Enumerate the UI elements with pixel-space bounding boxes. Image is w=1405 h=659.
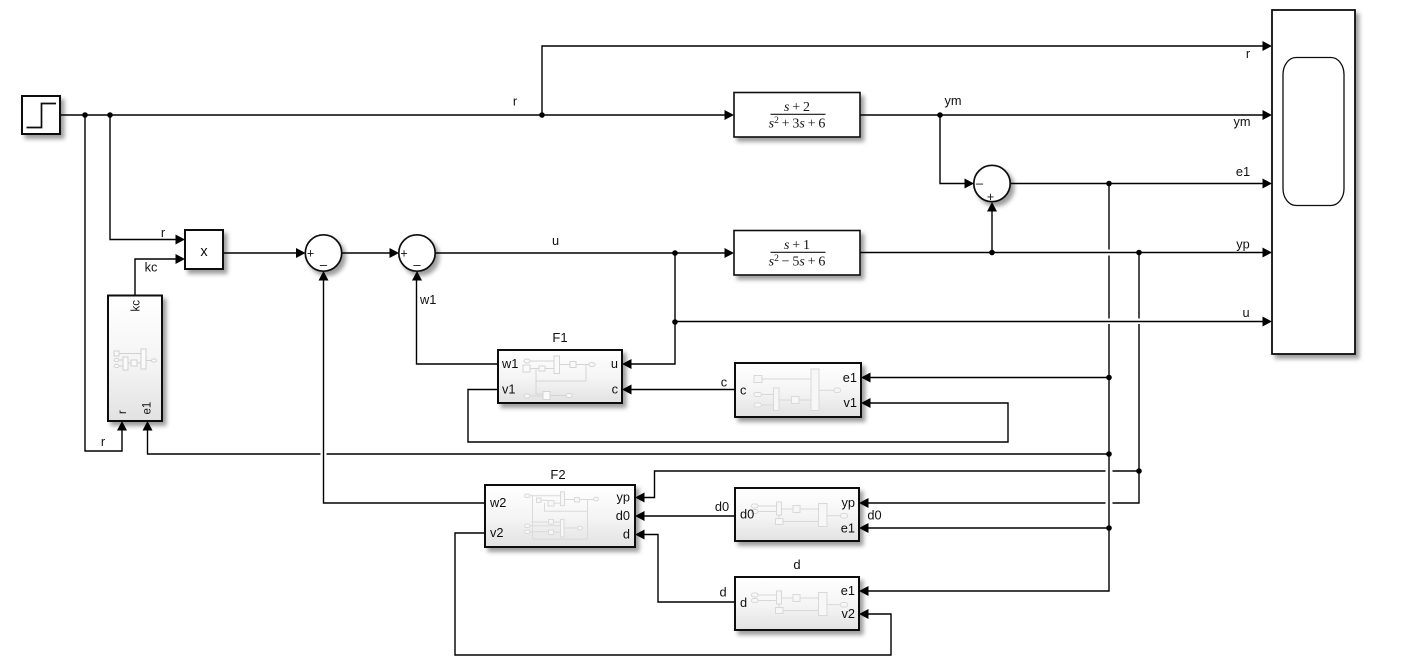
wire ym branch to sum3 <box>940 115 966 184</box>
svg-text:c: c <box>721 375 728 390</box>
wire c (c block out to F1) <box>631 389 736 391</box>
junction r line b <box>107 112 113 118</box>
svg-text:d: d <box>793 557 800 572</box>
wire u to scope <box>675 321 1264 323</box>
wire yp (TF2 out to scope) <box>860 252 1264 254</box>
svg-text:d0: d0 <box>740 507 754 522</box>
arrow F1 input u <box>622 359 632 369</box>
svg-text:e1: e1 <box>841 521 855 536</box>
svg-text:c: c <box>740 383 747 398</box>
svg-text:yp: yp <box>841 495 855 510</box>
svg-text:u: u <box>552 233 559 248</box>
svg-text:d: d <box>740 595 747 610</box>
svg-text:d0: d0 <box>715 499 729 514</box>
wire d0 (d0 out to F2) <box>644 515 735 517</box>
svg-text:–: – <box>413 257 421 272</box>
arrow F2 input d0 <box>635 511 645 521</box>
transfer function G1 (s+2)/(s^2+3s+6) <box>734 93 860 138</box>
junction ym <box>937 112 943 118</box>
svg-text:e1: e1 <box>843 370 857 385</box>
svg-text:+: + <box>400 247 407 261</box>
svg-text:d: d <box>623 527 630 542</box>
svg-text:yp: yp <box>616 490 630 505</box>
svg-text:kc: kc <box>131 300 143 312</box>
wire yp vertical x1139 lower <box>1138 324 1140 471</box>
arrow d0 input e1 <box>859 523 869 533</box>
arrow d0 input yp <box>859 498 869 508</box>
junction r to scope <box>539 112 545 118</box>
svg-text:s + 2: s + 2 <box>784 100 810 115</box>
arrow F2 input d <box>635 530 645 540</box>
svg-text:v2: v2 <box>490 525 504 540</box>
wire yp into sum3 <box>991 211 993 253</box>
svg-text:d0: d0 <box>616 508 630 523</box>
wire d (d out to F2) <box>644 535 735 603</box>
wire e1 vertical x1109 seg2 <box>1108 256 1110 319</box>
svg-text:r: r <box>513 94 518 109</box>
wire e1 vertical x1109 seg1 <box>1108 184 1110 250</box>
wire u branch down <box>674 253 676 322</box>
junction u line <box>672 250 678 256</box>
arrow scope ym <box>1263 110 1273 120</box>
svg-text:F2: F2 <box>550 467 565 482</box>
arrow d input v2 <box>859 609 869 619</box>
wire r main (step output to TF1) <box>60 114 726 116</box>
wire yp to d0 <box>1113 471 1140 503</box>
svg-text:+: + <box>307 247 314 261</box>
junction yp feedback <box>1136 468 1142 474</box>
arrow d input e1 <box>859 586 869 596</box>
wire r to kc estimator <box>85 115 122 451</box>
arrow sum2 up input w1 <box>412 271 422 281</box>
wire u (sum2 out to TF2) <box>435 252 726 254</box>
arrow sum1 input <box>296 248 306 258</box>
wire r to product <box>110 115 177 240</box>
arrow product input r <box>176 235 186 245</box>
wire kc <box>135 259 177 296</box>
svg-text:kc: kc <box>145 260 158 275</box>
svg-text:e1: e1 <box>1236 164 1250 179</box>
arrow scope u <box>1263 317 1273 327</box>
svg-text:u: u <box>1242 305 1249 320</box>
junction e1 long <box>1106 451 1112 457</box>
junction e1 at x1109 <box>1106 181 1112 187</box>
arrow scope yp <box>1263 248 1273 258</box>
wire r to scope <box>542 46 1264 115</box>
svg-text:–: – <box>320 257 328 272</box>
svg-text:d0: d0 <box>867 508 881 523</box>
svg-text:w1: w1 <box>501 356 518 371</box>
svg-text:+: + <box>987 190 994 204</box>
svg-text:r: r <box>1246 46 1251 61</box>
arrow kc input e1 <box>143 421 153 431</box>
arrow c input e1 <box>861 373 871 383</box>
svg-text:–: – <box>976 176 984 191</box>
svg-text:c: c <box>612 382 619 397</box>
svg-text:e1: e1 <box>142 402 154 415</box>
ARROWHEADS <box>117 41 1272 619</box>
arrow c input v1 <box>861 398 871 408</box>
wire w1 (F1 out to sum2) <box>417 280 499 364</box>
wire e1 long to kc <box>327 453 1110 455</box>
subsystem d0 <box>735 488 859 541</box>
wire w2 (F2 out to sum1) <box>324 280 486 503</box>
subsystem c <box>735 363 861 417</box>
wire yp to F2 <box>1113 470 1140 472</box>
svg-text:w2: w2 <box>489 495 506 510</box>
arrow scope r <box>1263 41 1273 51</box>
junction yp at x1139 <box>1136 250 1142 256</box>
product block X <box>185 230 223 269</box>
wire ym (TF1 out to scope) <box>860 114 1264 116</box>
svg-text:r: r <box>161 225 166 240</box>
svg-text:e1: e1 <box>841 583 855 598</box>
svg-text:w1: w1 <box>419 292 436 307</box>
svg-text:ym: ym <box>1233 114 1250 129</box>
wire e1 (sum3 out to scope) <box>1010 183 1264 185</box>
wire yp vertical x1139 upper <box>1138 253 1140 319</box>
wire u to F1 <box>631 322 676 364</box>
SIGNAL LABELS <box>101 46 1251 600</box>
arrow into TF2 <box>725 248 735 258</box>
wire sum1 out <box>342 252 392 254</box>
svg-text:yp: yp <box>1236 237 1250 252</box>
arrow kc input r <box>117 421 127 431</box>
sum junction S1 <box>305 235 341 272</box>
wire e1 long to kc cont <box>148 430 321 455</box>
arrow sum3 input <box>965 179 975 189</box>
scope block <box>1272 10 1355 354</box>
svg-text:u: u <box>611 356 618 371</box>
svg-text:d: d <box>719 585 726 600</box>
svg-text:F1: F1 <box>552 330 567 345</box>
sum junction S3 <box>974 165 1010 204</box>
arrow F1 input c <box>622 385 632 395</box>
svg-text:v1: v1 <box>843 395 857 410</box>
arrow sum2 input <box>390 248 400 258</box>
arrow product input kc <box>176 254 186 264</box>
junction yp at sum3 <box>989 250 995 256</box>
svg-text:r: r <box>101 434 106 449</box>
subsystem F2 <box>485 485 635 547</box>
wire yp to F2 cont <box>644 471 1106 498</box>
junction e1 to c <box>1106 375 1112 381</box>
junction u branch <box>672 319 678 325</box>
arrow into TF1 <box>725 110 735 120</box>
svg-text:v1: v1 <box>502 382 516 397</box>
arrow F2 input yp <box>635 493 645 503</box>
junction r line a <box>82 112 88 118</box>
wire v2 loop (F2 to d) <box>455 533 891 655</box>
wire e1 vertical x1109 seg3 and into d <box>869 324 1110 591</box>
arrow sum1 up input w2 <box>319 271 329 281</box>
svg-text:x: x <box>200 244 208 260</box>
svg-text:s + 1: s + 1 <box>784 238 810 253</box>
wire yp to d0 cont <box>869 502 1106 504</box>
wire e1 to d0 <box>869 527 1110 529</box>
arrow scope e1 <box>1263 179 1273 189</box>
wire v1 loop (F1 to c) <box>468 390 1008 443</box>
kc estimator subsystem <box>108 296 162 422</box>
subsystem d <box>735 577 859 630</box>
svg-text:ym: ym <box>944 93 961 108</box>
arrow sum3 up input <box>987 202 997 212</box>
svg-text:v2: v2 <box>841 606 855 621</box>
sum junction S2 <box>399 235 435 272</box>
junction e1 to d0 <box>1106 525 1112 531</box>
wire product out <box>223 252 298 254</box>
transfer function G2 (s+1)/(s^2-5s+6) <box>734 231 860 276</box>
subsystem F1 <box>498 350 622 403</box>
wire e1 to c block <box>870 377 1109 379</box>
step source block <box>22 96 60 134</box>
svg-text:r: r <box>117 410 129 414</box>
